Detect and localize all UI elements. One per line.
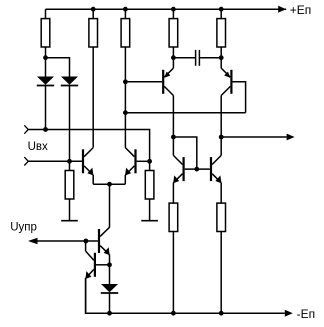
wire R7 top bbox=[149, 161, 151, 170]
transistor Q4 bbox=[221, 58, 232, 137]
wire R1 bottom to node bbox=[45, 47, 47, 58]
label -En bbox=[297, 307, 316, 321]
junction bottom rail at R8 bbox=[171, 311, 176, 316]
arrow -En terminal bbox=[285, 310, 293, 317]
wire D3 cathode bbox=[109, 293, 111, 313]
wire R2 bottom to Q1 collector bbox=[92, 47, 94, 148]
wire top supply rail +En bbox=[46, 8, 287, 10]
wire bottom supply rail -En bbox=[86, 278, 285, 313]
wire Q2 base bbox=[137, 160, 150, 162]
junction Q4-Q8 collectors output bbox=[219, 135, 224, 140]
diode D1 bbox=[37, 77, 54, 86]
arrow Uupr terminal bbox=[28, 238, 38, 244]
svg-text:-Еп: -Еп bbox=[297, 307, 316, 321]
capacitor C1 bbox=[196, 50, 200, 66]
input terminal 2 bbox=[24, 157, 28, 165]
wire diode jumper to D2 bbox=[46, 58, 70, 77]
arrow output terminal bbox=[287, 134, 295, 141]
input terminal 1 bbox=[24, 125, 28, 133]
transistor Q8 bbox=[210, 137, 222, 203]
wire Q7-Q8 base bridge bbox=[185, 168, 210, 170]
diode D2 bbox=[61, 77, 78, 86]
diode D3 bbox=[101, 284, 118, 293]
transistor Q6 bbox=[85, 251, 96, 313]
wire R4 to rail bbox=[172, 9, 174, 18]
resistor R3 bbox=[121, 19, 130, 47]
wire R9 to bottom rail bbox=[220, 232, 222, 314]
junction bottom rail at R9 bbox=[219, 311, 224, 316]
wire R3 bottom to Q2 collector bbox=[124, 47, 126, 148]
wire output line bbox=[221, 136, 286, 138]
wire Uupr line bbox=[38, 240, 98, 242]
resistor R8 bbox=[169, 203, 178, 231]
node Q3 emitter junction bbox=[171, 55, 176, 60]
transistor Q3 bbox=[162, 58, 173, 137]
resistor R7 bbox=[145, 171, 154, 200]
transistor Q2 bbox=[125, 148, 136, 185]
junction base bridge bbox=[194, 167, 199, 172]
resistor R2 bbox=[89, 19, 98, 47]
resistor R5 bbox=[217, 19, 226, 47]
node Q5 emitter - Q6 base bbox=[107, 262, 112, 267]
arrow +En terminal bbox=[278, 6, 286, 13]
wire R8 to bottom rail bbox=[172, 232, 174, 314]
resistor R6 bbox=[65, 171, 74, 200]
node R3 mirror tap bbox=[123, 110, 128, 115]
resistor R9 bbox=[217, 203, 226, 231]
junction Q3-Q7 collectors bbox=[171, 135, 176, 140]
junction top rail at R3 bbox=[123, 7, 128, 12]
node Q2 base junction bbox=[147, 159, 152, 164]
wire cap left lead bbox=[173, 57, 195, 59]
wire D3 anode bbox=[109, 265, 111, 284]
transistor Q7 bbox=[173, 137, 185, 203]
wire R6 top bbox=[69, 161, 71, 170]
label +En bbox=[290, 3, 312, 17]
junction Q6 collector to Q5 base bbox=[84, 239, 89, 244]
wire input line 2 bbox=[28, 160, 82, 162]
junction input2-D2 bbox=[67, 159, 72, 164]
wire D1 anode bbox=[45, 58, 47, 77]
ground G1 bbox=[61, 199, 78, 221]
node Q4 emitter junction bbox=[219, 55, 224, 60]
svg-text:Uвх: Uвх bbox=[28, 141, 48, 153]
junction top rail at R4 bbox=[171, 7, 176, 12]
transistor Q1 bbox=[82, 148, 94, 185]
resistor R1 bbox=[41, 19, 50, 47]
ground G2 bbox=[141, 199, 158, 221]
wire R4 bottom to node bbox=[172, 47, 174, 58]
label Uvx bbox=[28, 141, 48, 153]
node R1-diodes junction bbox=[43, 55, 48, 60]
wire R5 to rail bbox=[220, 9, 222, 18]
wire mirror line bbox=[125, 112, 245, 114]
svg-text:Uупр: Uупр bbox=[10, 221, 37, 233]
wire input line 1 bbox=[28, 130, 149, 162]
wire D2 cathode to input line 2 bbox=[69, 86, 71, 162]
junction top rail at R5 bbox=[219, 7, 224, 12]
wire Q3 base bbox=[125, 81, 162, 83]
label Uupr bbox=[10, 221, 37, 233]
wire Q6 collector up bbox=[85, 241, 87, 251]
wire tail to Q5 bbox=[109, 184, 111, 227]
node R3 base tap bbox=[123, 79, 128, 84]
wire base feed bbox=[173, 137, 196, 169]
wire R3 to rail bbox=[124, 9, 126, 18]
wire R2 to rail bbox=[92, 9, 94, 18]
svg-text:+Еп: +Еп bbox=[290, 3, 312, 17]
wire R1 to rail bbox=[45, 9, 47, 18]
wire D1 cathode to input line bbox=[45, 86, 47, 130]
wire cap right lead bbox=[200, 57, 221, 59]
junction tail node bbox=[107, 182, 112, 187]
transistor Q5 bbox=[98, 227, 110, 264]
junction input1-D1 bbox=[43, 127, 48, 132]
junction bottom rail at D3 bbox=[107, 311, 112, 316]
wire emitter rail bbox=[93, 183, 125, 185]
wire Q6 base bbox=[96, 264, 110, 266]
wire Q4 base loop bbox=[233, 82, 246, 113]
wire R5 bottom to node bbox=[220, 47, 222, 58]
junction top rail at R2 bbox=[91, 7, 96, 12]
resistor R4 bbox=[169, 19, 178, 47]
